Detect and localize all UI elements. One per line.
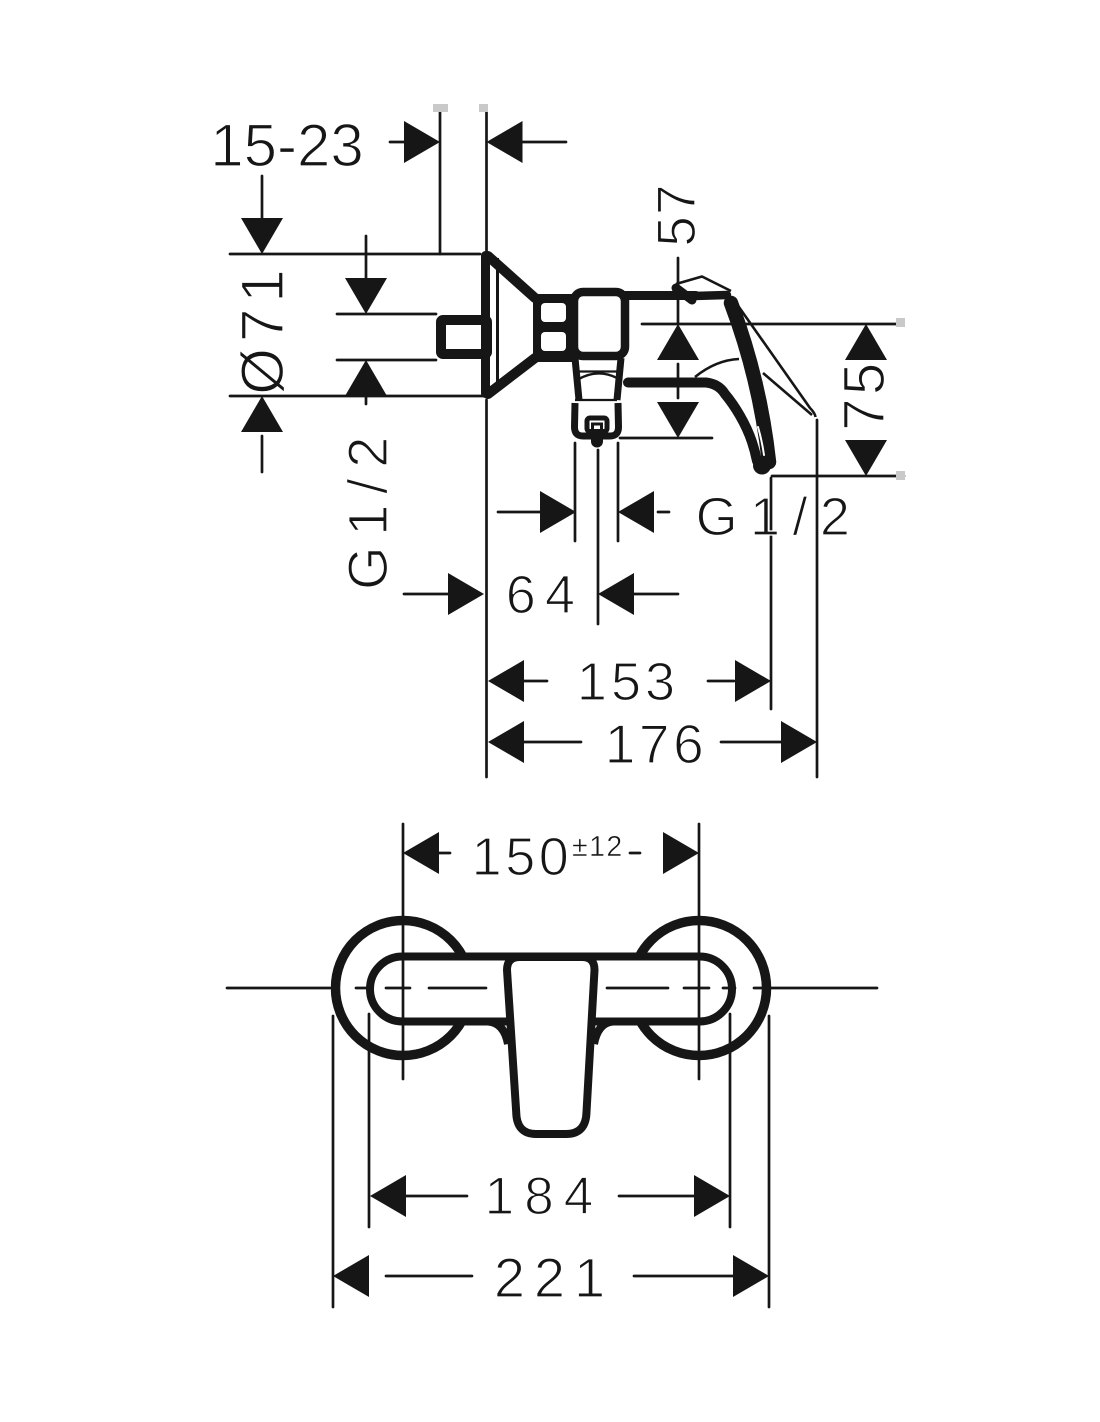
artifact grey mark handle line end	[896, 471, 905, 480]
dim 176 line left	[522, 741, 581, 744]
extension line handle raised tip x=817	[816, 420, 819, 777]
nozzle innermost square	[593, 424, 602, 431]
hose nipple stub	[591, 438, 603, 448]
arrow 57 down	[657, 402, 699, 438]
extension line pivot y=324	[642, 323, 897, 326]
arrow Ø71 up	[241, 396, 283, 432]
extension line flange top y=254	[230, 253, 480, 256]
flange cone bottom edge	[488, 358, 535, 394]
dim 64 stub left	[404, 593, 448, 596]
dim 150 stub left	[439, 852, 450, 855]
nut window lower	[541, 332, 566, 351]
valve body	[574, 292, 625, 356]
arrow 153 right	[735, 660, 771, 702]
extension line outlet left x=576	[574, 443, 577, 541]
extension line wall plane x=486 bottom	[485, 400, 488, 777]
left flange circle	[336, 921, 471, 1056]
dim 176 line right	[721, 741, 781, 744]
nozzle cup	[575, 403, 619, 436]
lever neck diagonal	[676, 288, 692, 300]
extension line nipple bottom y=360	[337, 359, 436, 362]
extension line handle tip x=771	[770, 478, 773, 709]
svg-text:15-23: 15-23	[210, 112, 363, 179]
artifact grey mark top left	[433, 104, 448, 112]
centerline segment far left	[227, 987, 330, 990]
dim 221 line right	[634, 1275, 735, 1278]
arrow 184 left	[370, 1175, 406, 1217]
outlet centerline x=598	[597, 450, 600, 624]
dim 184 line left	[404, 1195, 467, 1198]
outlet thin line 2	[575, 399, 617, 401]
centerline segment capsule left	[429, 987, 486, 990]
dim G1/2 outlet stub right	[658, 511, 669, 514]
svg-text:221: 221	[494, 1246, 614, 1309]
arrow 153 left	[488, 660, 524, 702]
extension line flange bottom y=396	[230, 395, 484, 398]
dim Ø71 shaft bottom	[261, 436, 264, 472]
artifact grey mark top right	[479, 104, 488, 112]
extension line circle left x=333	[332, 1016, 335, 1307]
flange plate inner line	[496, 258, 499, 391]
extension line outlet-bottom y=438	[620, 437, 712, 440]
handle underside curve thin	[695, 359, 739, 377]
centerline dash capsule right end	[684, 987, 709, 990]
arrow 221 left	[333, 1255, 369, 1297]
aerator dome arc	[577, 373, 617, 380]
dim Ø71 shaft top	[261, 176, 264, 222]
extension line handle-bottom y=476	[772, 475, 904, 478]
svg-text:G1/2: G1/2	[336, 426, 399, 590]
extension line capsule right x=730	[729, 1014, 732, 1227]
svg-text:G1/2: G1/2	[696, 487, 863, 547]
extension line circle right x=769	[768, 1016, 771, 1307]
extension line right flange center x=699	[698, 824, 701, 1079]
arrow 64 right	[448, 573, 484, 615]
arrow 57 up	[657, 324, 699, 360]
arrow 75 down	[845, 440, 887, 476]
flange cone top edge	[488, 256, 535, 298]
dim 153 line left	[522, 680, 547, 683]
handle raised outline peak	[676, 277, 731, 292]
arrow 184 right	[694, 1175, 730, 1217]
arrow 15-23 right	[404, 121, 440, 163]
outlet thin line 1	[574, 370, 621, 372]
arrow 75 up	[845, 324, 887, 360]
dim G1/2 outlet stub left	[498, 511, 540, 514]
faucet front view	[336, 921, 767, 1135]
extension line outlet right x=618	[617, 443, 620, 541]
arrow G1/2 wall down	[345, 278, 387, 314]
dim 150 stub right	[630, 852, 640, 855]
extension line left flange center x=403	[402, 824, 405, 1079]
handle raised outline upper edge	[734, 300, 816, 417]
flange wall plate bar	[481, 251, 490, 398]
fillet left	[488, 1022, 508, 1045]
arrow 150 right	[663, 832, 699, 874]
dim G1/2 wall shaft top	[365, 236, 368, 282]
dim 221 line left	[386, 1275, 472, 1278]
svg-text:150: 150	[472, 827, 573, 887]
dim 184 line right	[619, 1195, 696, 1198]
arrow 15-23 left	[487, 121, 523, 163]
arrow Ø71 down	[241, 218, 283, 254]
extension line wall-nipple-left x=440	[439, 106, 442, 254]
centerline segment far right	[754, 987, 877, 990]
svg-text:64: 64	[506, 565, 584, 625]
extension line nipple top y=314	[337, 313, 436, 316]
dim 15-23 stub right	[522, 141, 566, 144]
svg-text:176: 176	[605, 713, 708, 775]
arrow 176 right	[781, 721, 817, 763]
outlet side left	[575, 358, 579, 400]
handle raised outline lower edge	[763, 373, 812, 415]
dim G1/2 wall shaft bottom	[365, 392, 368, 404]
dim 64 stub right	[634, 593, 678, 596]
svg-text:75: 75	[832, 359, 897, 430]
right flange circle	[632, 921, 767, 1056]
centerline segment capsule right	[607, 987, 668, 990]
dim 57 shaft lower	[677, 364, 680, 398]
centerline dash capsule left end	[386, 987, 410, 990]
lever tip blob	[753, 457, 771, 475]
arrow 64 left	[598, 573, 634, 615]
centerline dash right circle	[723, 987, 735, 990]
outlet side right	[617, 358, 621, 400]
lever blade sliver	[758, 427, 764, 455]
lever cap	[694, 295, 727, 296]
lever front view	[507, 957, 595, 1134]
svg-text:153: 153	[577, 652, 679, 712]
body right top bar	[625, 291, 696, 300]
centerline dash left circle	[356, 987, 366, 990]
svg-text:57: 57	[645, 183, 707, 246]
arrow 221 right	[733, 1255, 769, 1297]
wall nipple square	[441, 320, 487, 354]
artifact grey mark pivot line end	[896, 318, 905, 327]
connection nut block	[533, 294, 578, 362]
handle lever side view	[628, 277, 816, 475]
dim 15-23 stub left	[390, 141, 404, 144]
arrow G1/2 outlet right	[540, 491, 576, 533]
svg-text:184: 184	[485, 1167, 604, 1226]
nozzle inner square	[587, 418, 607, 432]
dim 153 line right	[708, 680, 734, 683]
nut window upper	[541, 303, 566, 322]
faucet side view	[441, 251, 696, 448]
arrow G1/2 outlet left	[618, 491, 654, 533]
dim 57 shaft upper	[677, 258, 680, 324]
body capsule	[370, 957, 732, 1022]
svg-text:Ø71: Ø71	[229, 263, 296, 394]
arrow G1/2 wall up	[345, 360, 387, 396]
arrow 176 left	[488, 721, 524, 763]
svg-text:±12: ±12	[572, 831, 624, 863]
lever blade	[731, 303, 769, 462]
extension line capsule left x=369	[368, 1014, 371, 1227]
arrow 150 left	[403, 832, 439, 874]
lever underside hook	[628, 383, 757, 462]
fillet right	[594, 1022, 613, 1045]
extension line wall plane x=486 top	[485, 106, 488, 254]
